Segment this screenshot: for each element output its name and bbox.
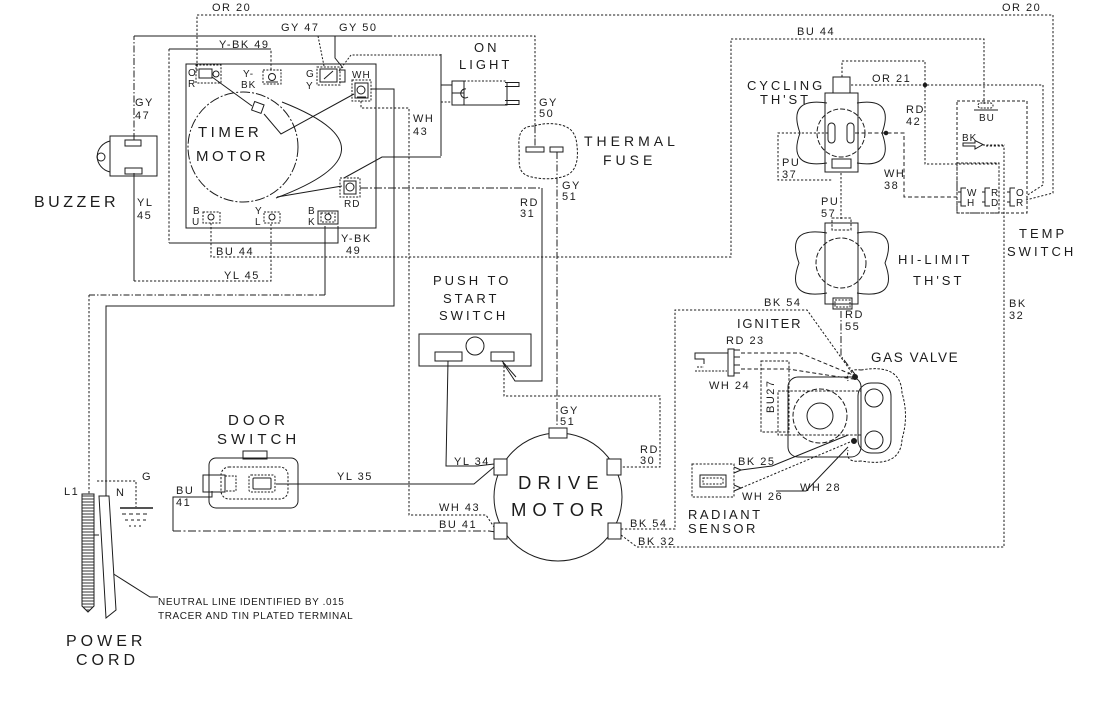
svg-text:YL 45: YL 45 (224, 270, 260, 282)
junction dots (923, 83, 927, 87)
svg-text:SWITCH: SWITCH (1007, 244, 1076, 259)
svg-text:DRIVE: DRIVE (518, 472, 605, 493)
timer motor cam bulge (276, 102, 342, 198)
svg-text:LIGHT: LIGHT (459, 57, 512, 72)
svg-text:OR 21: OR 21 (872, 73, 911, 85)
svg-text:L1: L1 (64, 486, 79, 498)
terminal BU (203, 212, 220, 223)
wire G-Y terminal to ON LIGHT (339, 55, 441, 71)
svg-text:32: 32 (1009, 310, 1024, 322)
svg-text:U: U (192, 217, 200, 228)
svg-text:WH 24: WH 24 (709, 380, 750, 392)
timer switch arm RD (277, 186, 342, 197)
svg-text:Y-: Y- (243, 69, 254, 80)
wire BU 41 (173, 491, 212, 531)
drive motor (494, 428, 622, 561)
buzzer (97, 136, 157, 176)
wire RD 42 (842, 61, 998, 164)
svg-text:WH: WH (352, 70, 371, 81)
svg-text:R: R (1016, 198, 1024, 209)
svg-text:WH: WH (884, 168, 905, 180)
timer cam follower diamond (252, 102, 264, 114)
svg-text:YL 35: YL 35 (337, 471, 373, 483)
power cord L1 blade (82, 494, 94, 612)
svg-text:31: 31 (520, 208, 535, 220)
svg-text:50: 50 (539, 108, 554, 120)
svg-text:SWITCH: SWITCH (217, 431, 300, 448)
svg-text:RD: RD (845, 309, 864, 321)
radiant sensor (692, 464, 741, 497)
svg-text:BU27: BU27 (765, 379, 777, 413)
wire YL 34 (446, 361, 494, 466)
svg-text:BU 41: BU 41 (439, 519, 477, 531)
wire PU 37 (778, 133, 833, 180)
svg-text:PUSH TO: PUSH TO (433, 273, 511, 288)
thermal fuse (519, 124, 578, 179)
door switch (203, 451, 298, 508)
terminal RD (340, 178, 360, 197)
svg-text:BUZZER: BUZZER (34, 194, 119, 211)
svg-text:G: G (306, 69, 315, 80)
svg-text:BU 44: BU 44 (797, 26, 835, 38)
wire RD 30 (504, 366, 660, 467)
svg-text:PU: PU (821, 196, 839, 208)
power cord N blade (99, 496, 116, 618)
wire WH neutral (106, 89, 394, 496)
terminal BK (318, 211, 338, 224)
temp switch bottom terminals (958, 188, 966, 206)
wire WH 43 vertical (361, 101, 494, 527)
temp switch BU terminal (978, 103, 993, 108)
svg-text:RADIANT: RADIANT (688, 507, 763, 522)
svg-text:O: O (188, 68, 197, 79)
wire Y-BK 49 loop (169, 49, 271, 243)
temp switch box (957, 101, 1027, 213)
svg-text:GY 50: GY 50 (339, 22, 378, 34)
cycling thermostat (797, 77, 886, 172)
svg-text:Y-BK 49: Y-BK 49 (219, 39, 269, 51)
svg-text:GAS VALVE: GAS VALVE (871, 350, 959, 365)
ground symbol (120, 508, 153, 526)
wire WH 26 (741, 442, 850, 488)
svg-text:START: START (443, 291, 499, 306)
svg-text:POWER: POWER (66, 633, 146, 650)
svg-text:L: L (255, 217, 262, 228)
svg-text:CORD: CORD (76, 652, 139, 669)
svg-text:BK: BK (962, 133, 977, 144)
svg-text:BU: BU (176, 485, 194, 497)
hi-limit thermostat (796, 218, 889, 309)
wire BK 54 (621, 310, 855, 529)
wire BK temp switch arrow (983, 144, 1005, 146)
svg-text:D: D (991, 198, 999, 209)
svg-text:NEUTRAL LINE IDENTIFIED BY .01: NEUTRAL LINE IDENTIFIED BY .015 (158, 597, 344, 608)
wire RD 23 (741, 353, 853, 375)
svg-text:K: K (308, 217, 316, 228)
svg-text:PU: PU (782, 157, 800, 169)
wire BU 44 long run (211, 39, 984, 257)
svg-text:WH 26: WH 26 (742, 491, 783, 503)
svg-text:DOOR: DOOR (228, 412, 289, 429)
igniter (695, 349, 740, 376)
svg-text:TH'ST: TH'ST (913, 273, 964, 288)
svg-text:49: 49 (346, 245, 361, 257)
wire RD terminal to ON LIGHT (344, 54, 452, 178)
svg-text:45: 45 (137, 210, 152, 222)
svg-text:30: 30 (640, 455, 655, 467)
wire GY 50 tap to G-Y terminal (335, 36, 343, 68)
wire WH 28 (776, 447, 848, 491)
svg-text:OR 20: OR 20 (1002, 2, 1041, 14)
svg-text:BU: BU (979, 113, 995, 124)
wire YL 45 (133, 173, 135, 281)
svg-text:RD: RD (906, 104, 925, 116)
svg-text:H: H (967, 198, 975, 209)
svg-text:BU 44: BU 44 (216, 246, 254, 258)
svg-text:N: N (116, 487, 125, 499)
svg-text:CYCLING: CYCLING (747, 78, 825, 93)
wire BK 32 (621, 146, 1004, 547)
wire YL 35 (276, 467, 494, 484)
temp switch BK arrow terminal (963, 141, 983, 150)
svg-text:BK: BK (241, 80, 256, 91)
timer switch arm OR-WH (212, 77, 354, 134)
svg-text:IGNITER: IGNITER (737, 316, 802, 331)
svg-text:TH'ST: TH'ST (760, 92, 811, 107)
svg-text:Y: Y (255, 206, 263, 217)
svg-text:G: G (142, 471, 152, 483)
wire neutral pointer (112, 573, 158, 597)
svg-text:BK 54: BK 54 (630, 518, 667, 530)
terminal OR (196, 65, 221, 83)
svg-text:SENSOR: SENSOR (688, 521, 758, 536)
svg-text:HI-LIMIT: HI-LIMIT (898, 252, 973, 267)
terminal YL (264, 212, 280, 223)
svg-text:Y: Y (306, 81, 314, 92)
svg-text:TEMP: TEMP (1019, 226, 1067, 241)
svg-text:43: 43 (413, 126, 428, 138)
svg-text:GY 47: GY 47 (281, 22, 320, 34)
wire OR 21 (851, 85, 1043, 196)
wire BK to L1 (324, 226, 326, 295)
wire BK 25 (741, 435, 848, 470)
svg-text:WH 43: WH 43 (439, 502, 480, 514)
svg-text:Y-BK: Y-BK (341, 233, 372, 245)
svg-text:GY: GY (135, 97, 154, 109)
svg-text:B: B (193, 206, 201, 217)
svg-text:47: 47 (135, 110, 150, 122)
wire GY 47 / GY 50 top bus (133, 36, 135, 140)
svg-text:OR 20: OR 20 (212, 2, 251, 14)
svg-text:YL: YL (137, 197, 153, 209)
terminal G-Y (317, 67, 345, 85)
svg-text:TIMER: TIMER (198, 124, 262, 141)
timer motor rotor circle (188, 92, 298, 202)
svg-text:SWITCH: SWITCH (439, 308, 508, 323)
svg-text:R: R (188, 79, 196, 90)
wire WH 38 (855, 133, 957, 197)
svg-text:MOTOR: MOTOR (511, 499, 610, 520)
wire PU 57 (840, 173, 842, 219)
svg-text:RD: RD (344, 199, 360, 210)
wire GY 47 tap to G-Y terminal (318, 36, 324, 66)
wire GY 51 fuse to motor (535, 126, 557, 427)
svg-text:FUSE: FUSE (603, 152, 656, 168)
svg-text:MOTOR: MOTOR (196, 148, 269, 165)
svg-text:57: 57 (821, 208, 836, 220)
svg-text:51: 51 (562, 191, 577, 203)
wire RD 31 (360, 187, 542, 189)
svg-text:BK 54: BK 54 (764, 297, 801, 309)
svg-text:BK 25: BK 25 (738, 456, 775, 468)
svg-text:B: B (308, 206, 316, 217)
svg-text:51: 51 (560, 416, 575, 428)
wire ON LIGHT lower lead (441, 101, 452, 103)
svg-text:ON: ON (474, 40, 500, 55)
power cord blade tick (94, 534, 99, 536)
wire OR 20 main bus (197, 15, 1053, 200)
terminal WH (352, 80, 371, 101)
svg-text:WH: WH (413, 113, 434, 125)
svg-text:38: 38 (884, 180, 899, 192)
svg-text:THERMAL: THERMAL (584, 133, 679, 149)
svg-text:WH 28: WH 28 (800, 482, 841, 494)
terminal Y-BK (263, 70, 281, 84)
on light (452, 81, 519, 105)
svg-text:BK 32: BK 32 (638, 536, 675, 548)
wire WH 24 (741, 369, 853, 379)
svg-text:TRACER AND TIN PLATED TERMINAL: TRACER AND TIN PLATED TERMINAL (158, 611, 353, 622)
svg-text:42: 42 (906, 116, 921, 128)
timer motor box (186, 64, 376, 228)
push to start switch (419, 334, 531, 377)
svg-text:37: 37 (782, 169, 797, 181)
svg-text:RD 23: RD 23 (726, 335, 765, 347)
svg-text:41: 41 (176, 497, 191, 509)
svg-text:55: 55 (845, 321, 860, 333)
wire RD 55 (841, 311, 857, 377)
wire G ground (97, 481, 136, 507)
svg-text:YL 34: YL 34 (454, 456, 490, 468)
gas valve (761, 361, 906, 462)
svg-text:BK: BK (1009, 298, 1027, 310)
